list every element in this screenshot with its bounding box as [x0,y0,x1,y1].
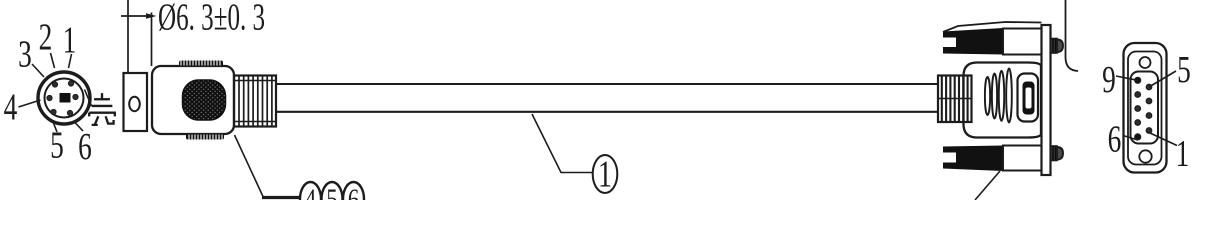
pin 2 hole (top-left) [52,82,57,87]
strain relief left (ribbed) [234,76,276,127]
leader from label 壳 to shell [85,90,92,107]
leader from label 1 to shell [69,54,72,68]
leader to callout 1 [532,114,593,173]
callout circle 1 [593,155,618,193]
dimension extension line left [127,0,129,73]
DB9 face view outer outline [1124,43,1167,173]
overmold body of left plug [152,66,234,134]
top jack screw [1051,39,1058,54]
black knurled grip oval [183,80,226,120]
pin 1 hole (top-right) [68,81,73,86]
svg-text:6: 6 [78,126,92,168]
leader from label 3 to shell [32,64,44,77]
leader from label 5 to shell [53,121,58,133]
svg-text:1: 1 [63,19,77,61]
svg-text:4: 4 [4,86,18,128]
pins right column [1146,84,1152,90]
cable (two parallel lines) [276,83,938,85]
body grip ribs (arcs) [985,77,990,115]
cropped leader line top right [1066,0,1079,71]
leader from label 6 to shell [74,122,83,132]
hood top outline [943,22,1042,32]
DB9 face view middle outline [1128,52,1162,165]
svg-text:2: 2 [39,16,53,58]
svg-text:6: 6 [348,182,359,200]
mini-DIN plug barrel (side view) [124,73,148,131]
connector J1 mini-DIN face view outer shell circle [38,72,90,124]
pin 5 hole (bottom-left) [51,109,56,114]
svg-text:5: 5 [1177,49,1191,91]
pin hole (right) [73,94,78,99]
face plate [1042,25,1051,175]
leader to callouts 4 5 6 [235,135,264,197]
top screw hole [1140,57,1151,68]
svg-text:3: 3 [18,33,32,75]
leader line from hood bottom going off-image [975,171,1000,200]
leader 9 [1116,76,1138,80]
svg-text:4: 4 [305,182,316,200]
leader 5 [1149,71,1176,87]
key slot (black rectangle) [60,93,71,103]
leader 1 [1150,133,1177,146]
callout circle 5 [322,182,343,216]
dimension line with arrow [121,15,153,17]
bottom screw hole [1139,150,1151,162]
leader 6 [1123,136,1138,141]
hood top white section [1003,29,1042,55]
molded emblem rounded square [1018,74,1039,122]
svg-text:6: 6 [1108,118,1122,160]
hood top black shell [943,28,1003,55]
dimension extension line right [151,13,153,67]
svg-text:1: 1 [1176,133,1190,175]
hood bottom white section [1003,146,1042,171]
svg-text:9: 9 [1102,59,1116,101]
hood bottom black shell [943,146,1003,172]
svg-text:1: 1 [598,154,612,196]
svg-text:5: 5 [326,182,337,200]
bottom serrated grip ridge [186,134,224,139]
DB9 aperture [1131,72,1159,144]
leader from label 4 to shell [19,100,41,107]
callout circle 4 [300,182,321,216]
svg-text:Ø6. 3±0. 3: Ø6. 3±0. 3 [158,0,265,38]
barrel hole marking [129,97,140,111]
callout circle 6 [343,182,364,216]
strain relief right (ribbed) [938,76,972,123]
connector J1 mini-DIN face inner ring [45,79,84,118]
top serrated grip ridge [179,61,223,66]
DB9 plug molded body [964,63,1042,138]
pin 6 hole (bottom-right) [67,110,72,115]
label 壳 (shell) drawn strokes [89,93,115,125]
bottom jack screw [1051,146,1058,161]
pins left column (9,8,7,6 ... ) [1135,77,1141,83]
pin 4 hole (left) [47,95,52,100]
leader from label 2 to shell [51,53,55,68]
